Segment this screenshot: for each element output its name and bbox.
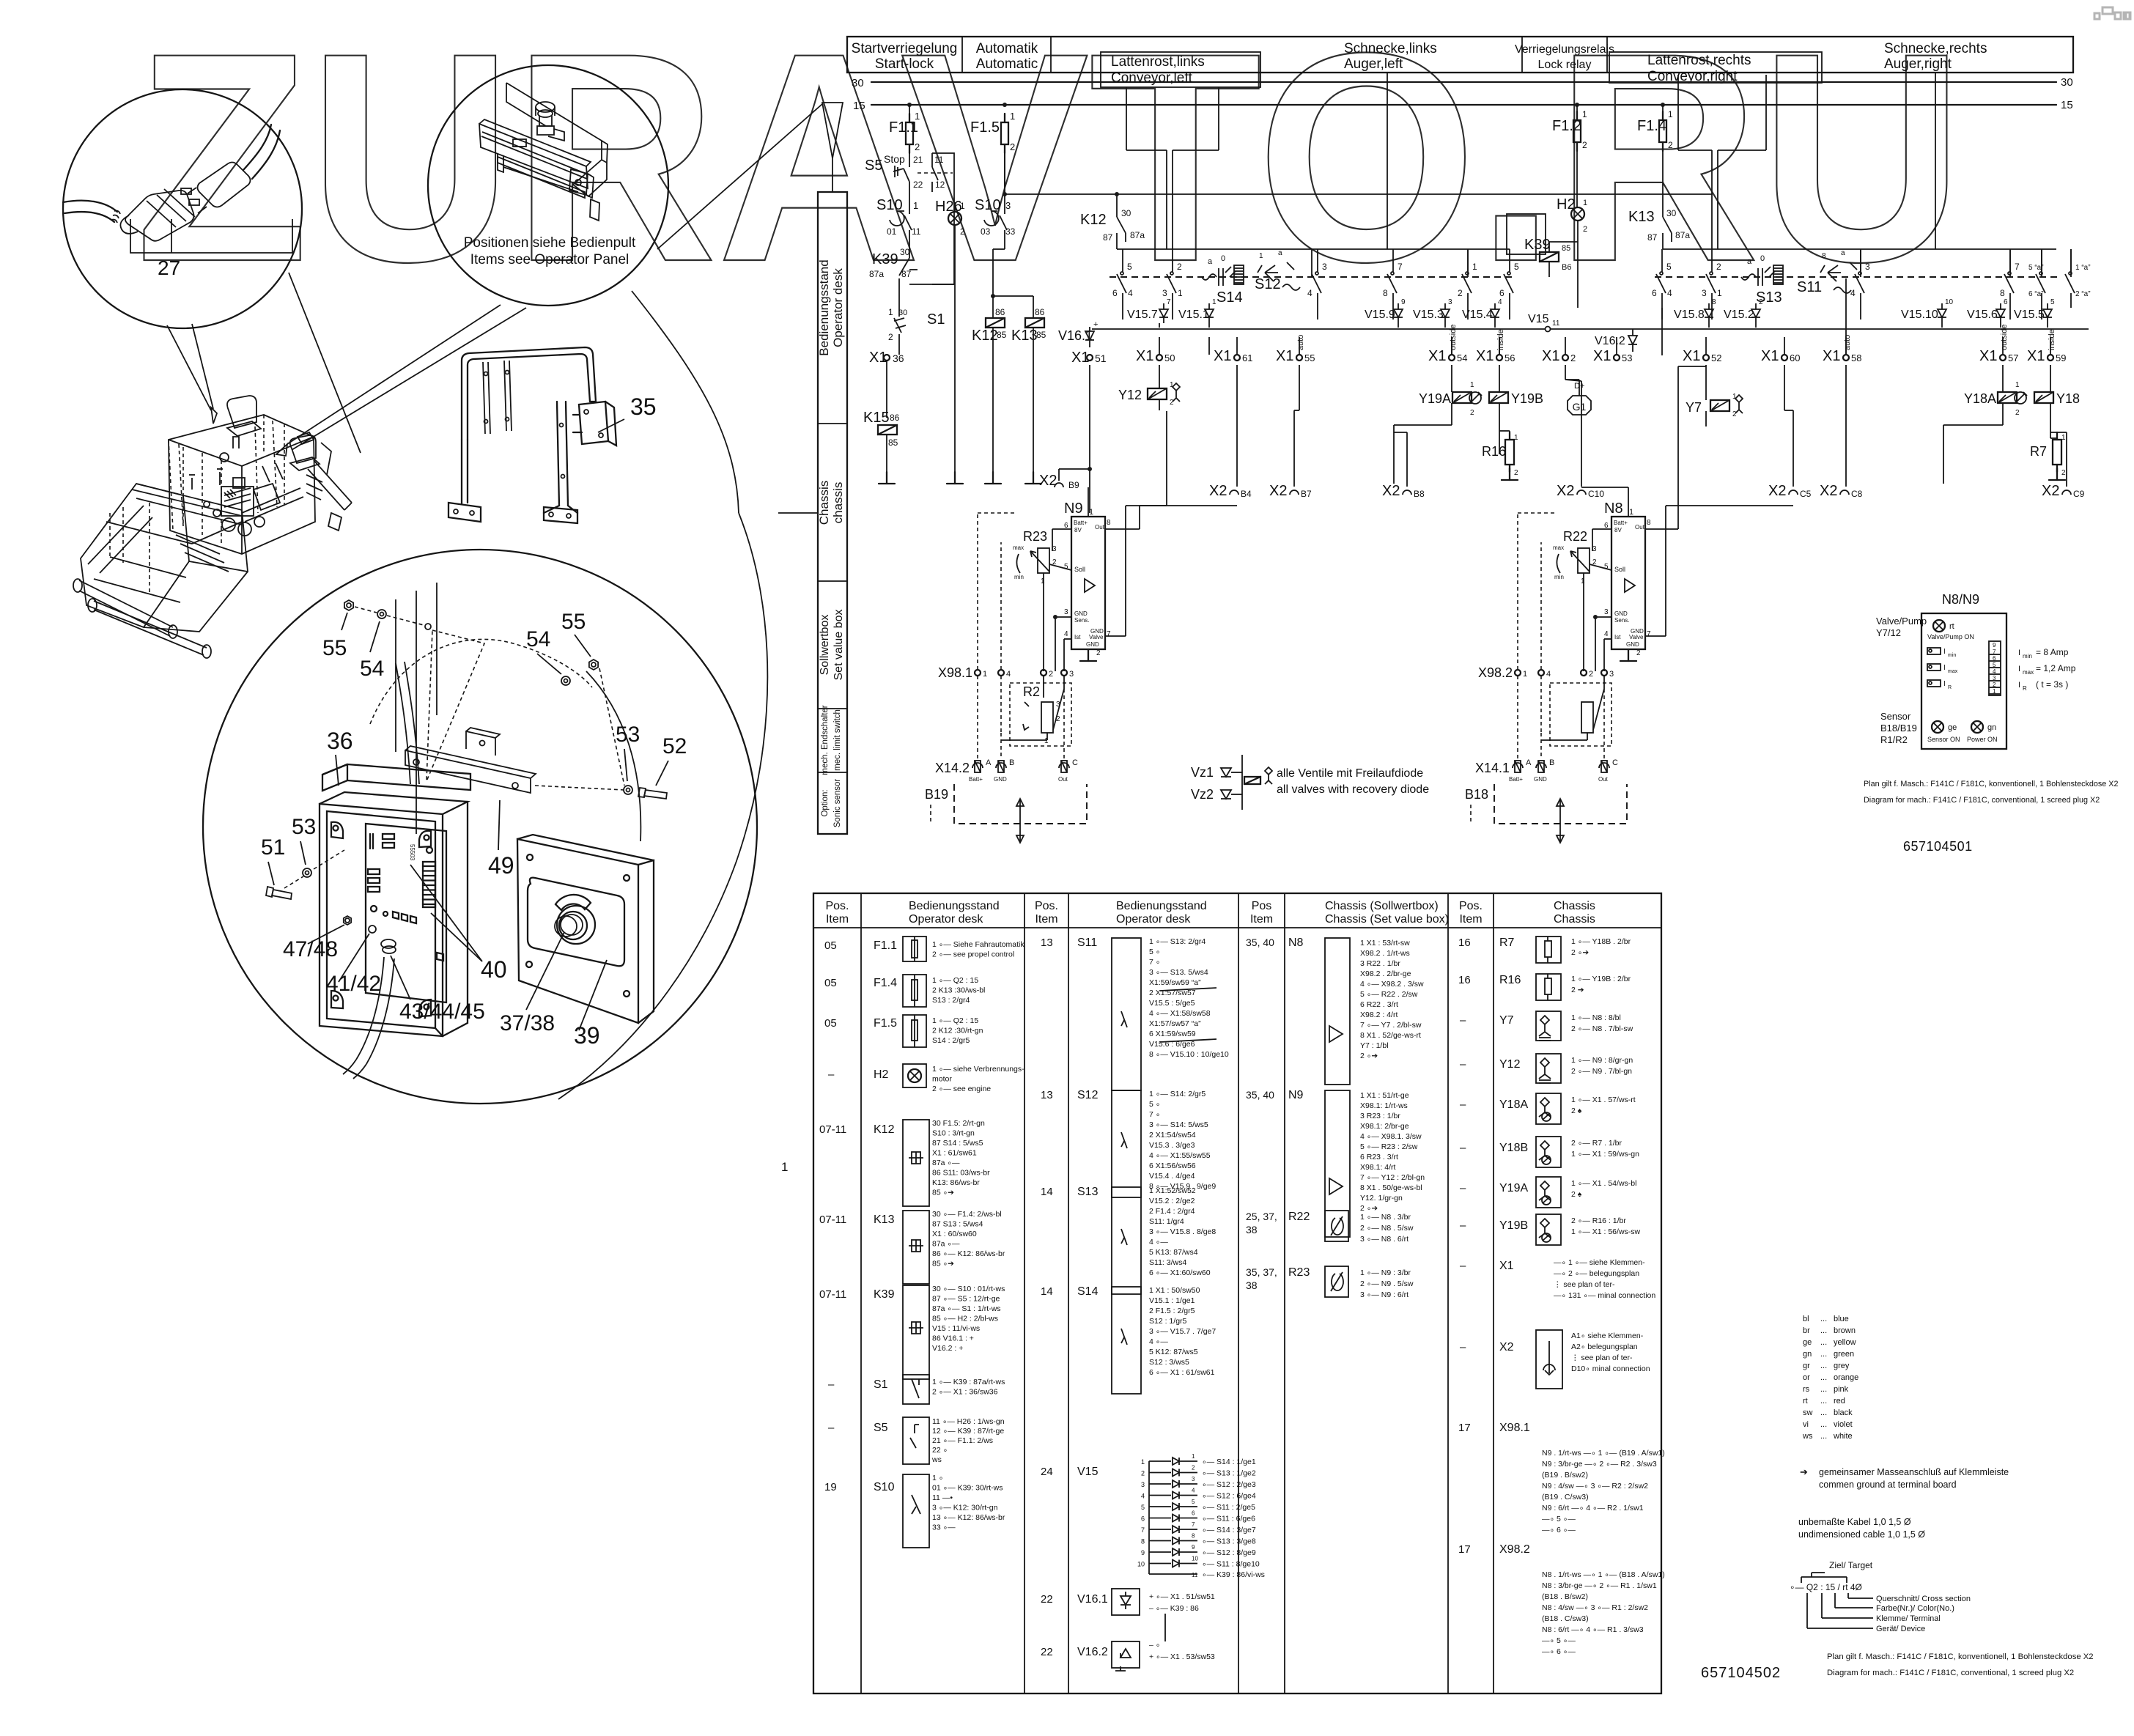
svg-text:+: +: [1093, 320, 1098, 329]
dashed line to 53 52: [599, 668, 624, 786]
svg-text:X1: X1: [1593, 348, 1611, 364]
svg-text:1: 1: [2061, 434, 2066, 442]
svg-text:35: 35: [630, 394, 657, 420]
svg-text:rt: rt: [1949, 622, 1954, 631]
svg-text:3: 3: [1609, 670, 1614, 679]
svg-text:motor: motor: [932, 1075, 952, 1084]
svg-text:05: 05: [824, 977, 837, 989]
svg-text:33 ∘—: 33 ∘—: [932, 1523, 956, 1532]
feeder legs from Lattenrost links box: [1126, 87, 1127, 150]
fuse F1.4: [1662, 105, 1664, 120]
svg-text:auto: auto: [1296, 335, 1305, 350]
svg-text:X2: X2: [1382, 483, 1400, 499]
svg-text:35, 40: 35, 40: [1246, 1089, 1274, 1101]
svg-text:3: 3: [1141, 1481, 1145, 1488]
svg-text:∘— K39 : 86/vi-ws: ∘— K39 : 86/vi-ws: [1202, 1570, 1265, 1579]
svg-text:22 ∘: 22 ∘: [932, 1446, 948, 1455]
machine isometric drawing: [73, 396, 352, 658]
svg-text:X1: X1: [1276, 348, 1293, 364]
svg-text:X98.2: X98.2: [1478, 665, 1513, 680]
svg-text:1: 1: [1212, 298, 1216, 306]
svg-text:Y18A: Y18A: [1964, 391, 1996, 406]
svg-text:56: 56: [1504, 352, 1515, 363]
svg-text:S10 : 3/rt-gn: S10 : 3/rt-gn: [932, 1129, 975, 1138]
svg-text:85: 85: [888, 437, 898, 448]
svg-text:Out: Out: [1095, 524, 1105, 531]
svg-text:1: 1: [781, 1160, 788, 1174]
svg-text:5: 5: [1141, 1504, 1145, 1511]
dashed control row links: [1110, 276, 1514, 278]
svg-text:1 ∘— Q2 : 15: 1 ∘— Q2 : 15: [932, 976, 978, 985]
svg-text:2: 2: [1141, 1470, 1145, 1477]
svg-text:X98.2 . 2/br-ge: X98.2 . 2/br-ge: [1360, 969, 1411, 978]
svg-text:6 X1:59/sw59: 6 X1:59/sw59: [1149, 1030, 1196, 1038]
svg-text:X98.1: X98.1: [1499, 1422, 1530, 1434]
wires diode row to X1 row: [1159, 337, 1160, 355]
svg-text:7: 7: [1993, 649, 1996, 655]
svg-text:24: 24: [1041, 1466, 1053, 1478]
svg-text:17: 17: [1458, 1543, 1471, 1556]
svg-text:2: 2: [1636, 649, 1641, 657]
svg-text:1: 1: [1041, 577, 1045, 586]
svg-text:B4: B4: [1241, 489, 1252, 499]
svg-text:87: 87: [1647, 232, 1658, 243]
wires from contact row down to diodes: [1122, 308, 1123, 320]
svg-text:gn: gn: [1803, 1350, 1812, 1359]
svg-text:3: 3: [1604, 608, 1609, 616]
svg-text:1 X1:52/sw52: 1 X1:52/sw52: [1149, 1186, 1196, 1195]
mount posts in circle: [395, 599, 396, 752]
svg-text:8: 8: [1141, 1538, 1145, 1545]
svg-text:8: 8: [1647, 519, 1651, 527]
svg-text:X1: X1: [1428, 348, 1446, 364]
svg-text:GND: GND: [1074, 610, 1088, 617]
svg-text:N9 : 6/rt —∘ 4 ∘— R2 .: N9 : 6/rt —∘ 4 ∘— R2 . 1/sw1: [1542, 1504, 1644, 1512]
svg-text:N8: N8: [1288, 937, 1304, 949]
svg-text:⋮ see plan of ter-: ⋮ see plan of ter-: [1554, 1280, 1615, 1289]
svg-text:V15.1: V15.1: [1178, 309, 1209, 321]
svg-text:6: 6: [1192, 1510, 1195, 1517]
svg-text:3 ∘— V15.8 . 8/ge8: 3 ∘— V15.8 . 8/ge8: [1149, 1227, 1216, 1236]
svg-text:3: 3: [1162, 288, 1167, 298]
svg-text:GND: GND: [1086, 641, 1099, 648]
svg-text:2: 2: [915, 141, 920, 152]
dashed sensor wires X98.1: [977, 676, 978, 759]
svg-text:–: –: [828, 1068, 835, 1081]
svg-text:N8 : 6/rt —∘ 4 ∘— R1 .: N8 : 6/rt —∘ 4 ∘— R1 . 3/sw3: [1542, 1625, 1644, 1634]
wire bus under K13: [1663, 248, 2056, 250]
svg-text:Operator desk: Operator desk: [831, 268, 845, 347]
svg-text:6: 6: [1499, 288, 1504, 298]
svg-text:4: 4: [1128, 288, 1133, 298]
svg-text:30: 30: [900, 247, 910, 257]
svg-text:54: 54: [526, 627, 550, 651]
svg-text:X98.1: 2/br-ge: X98.1: 2/br-ge: [1360, 1122, 1409, 1131]
svg-text:2: 2: [1668, 140, 1673, 150]
svg-text:Stop: Stop: [884, 153, 905, 165]
dashed control row rechts: [1655, 276, 2061, 278]
svg-text:unbemaßte Kabel 1,0 1,5 Ø: unbemaßte Kabel 1,0 1,5 Ø: [1798, 1517, 1911, 1527]
svg-text:X1: X1: [1542, 348, 1559, 364]
svg-text:3: 3: [1069, 670, 1074, 679]
svg-text:4: 4: [1993, 668, 1996, 675]
svg-text:5 ∘: 5 ∘: [1149, 1100, 1160, 1109]
dashed fastener line left: [355, 607, 377, 613]
svg-text:54: 54: [1457, 352, 1467, 363]
svg-text:Chassis (Sollwertbox): Chassis (Sollwertbox): [1325, 900, 1439, 912]
svg-text:N8 : 3/br-ge —∘ 2 ∘— R1 . 1: N8 : 3/br-ge —∘ 2 ∘— R1 . 1/sw1: [1542, 1581, 1657, 1590]
svg-text:V15.5 : 5/ge5: V15.5 : 5/ge5: [1149, 999, 1195, 1008]
svg-text:rs: rs: [1803, 1385, 1810, 1394]
svg-text:5: 5: [1666, 262, 1672, 272]
svg-text:...: ...: [1820, 1326, 1827, 1335]
svg-text:X1: X1: [2027, 348, 2045, 364]
svg-text:2 ∘➔: 2 ∘➔: [1571, 948, 1589, 957]
svg-text:black: black: [1834, 1408, 1853, 1417]
grounds automatik: [992, 472, 994, 484]
svg-text:ge: ge: [1948, 723, 1957, 732]
svg-text:87 ∘— S5 : 12/rt-ge: 87 ∘— S5 : 12/rt-ge: [932, 1295, 1000, 1304]
svg-text:I: I: [2018, 665, 2020, 673]
svg-text:30 ∘— F1.4: 2/ws-bl: 30 ∘— F1.4: 2/ws-bl: [932, 1210, 1002, 1219]
svg-text:Out: Out: [1058, 776, 1068, 783]
svg-text:B7: B7: [1301, 489, 1312, 499]
svg-text:vi: vi: [1803, 1420, 1809, 1429]
svg-text:GND: GND: [1626, 641, 1639, 648]
svg-text:2: 2: [1458, 288, 1463, 298]
svg-text:Out: Out: [1598, 776, 1609, 783]
svg-text:all valves with recovery diode: all valves with recovery diode: [1277, 783, 1429, 796]
svg-text:( t = 3s ): ( t = 3s ): [2036, 679, 2068, 690]
svg-text:X1: X1: [1979, 348, 1997, 364]
svg-text:30 ∘— S10 : 01/rt-ws: 30 ∘— S10 : 01/rt-ws: [932, 1285, 1005, 1293]
pcb panel 40: [366, 824, 446, 1002]
svg-text:2: 2: [1583, 225, 1587, 234]
svg-text:B8: B8: [1414, 489, 1425, 499]
svg-text:ge: ge: [1803, 1338, 1812, 1347]
svg-text:auto: auto: [1843, 335, 1852, 350]
svg-text:∘— S13 : 1/ge2: ∘— S13 : 1/ge2: [1202, 1469, 1256, 1478]
svg-text:2 ∘— R7 . 1/br: 2 ∘— R7 . 1/br: [1571, 1139, 1622, 1148]
plug connector body 27: [125, 191, 194, 241]
svg-text:Diagram for mach.: F141C / F1: Diagram for mach.: F141C / F181C, conven…: [1864, 796, 2100, 805]
svg-text:7 ∘— Y7 . 2/bl-sw: 7 ∘— Y7 . 2/bl-sw: [1360, 1021, 1422, 1030]
svg-text:V15.10: V15.10: [1901, 309, 1938, 321]
leader swoosh to sollwertbox: [632, 291, 739, 513]
svg-text:red: red: [1834, 1397, 1845, 1406]
grommet 43/44/45: [383, 946, 396, 953]
svg-text:87 S14 : 5/ws5: 87 S14 : 5/ws5: [932, 1139, 983, 1148]
svg-text:max: max: [1948, 669, 1958, 674]
svg-text:1 X1 : 50/sw50: 1 X1 : 50/sw50: [1149, 1286, 1200, 1295]
svg-text:X1:59/sw59 “a”: X1:59/sw59 “a”: [1149, 978, 1201, 987]
svg-text:40: 40: [481, 956, 507, 983]
svg-text:a: a: [1747, 257, 1752, 266]
svg-text:9: 9: [1401, 298, 1406, 306]
svg-text:Valve/Pump ON: Valve/Pump ON: [1927, 633, 1974, 640]
svg-text:19: 19: [824, 1481, 837, 1493]
svg-text:87a: 87a: [869, 269, 884, 279]
svg-text:min: min: [1014, 574, 1024, 580]
svg-text:4: 4: [1006, 670, 1011, 679]
svg-text:F1.4: F1.4: [874, 977, 897, 989]
svg-text:87 S13 : 5/ws4: 87 S13 : 5/ws4: [932, 1220, 983, 1229]
svg-text:07-11: 07-11: [819, 1288, 846, 1301]
svg-text:S12 : 1/gr5: S12 : 1/gr5: [1149, 1317, 1187, 1326]
svg-text:outside: outside: [2000, 325, 2009, 350]
svg-text:9: 9: [1993, 642, 1996, 649]
svg-text:6 “a”: 6 “a”: [2028, 290, 2044, 298]
svg-text:brown: brown: [1834, 1326, 1856, 1335]
svg-text:C8: C8: [1851, 489, 1863, 499]
svg-text:X2: X2: [1820, 483, 1837, 499]
svg-text:–: –: [1460, 1058, 1466, 1071]
svg-text:Start-lock: Start-lock: [875, 56, 934, 72]
svg-text:1 X1 : 53/rt-sw: 1 X1 : 53/rt-sw: [1360, 939, 1410, 948]
wire bus under K12: [1117, 248, 1510, 250]
svg-text:Diagram for mach.: F141C / F1: Diagram for mach.: F141C / F181C, conven…: [1827, 1669, 2074, 1677]
svg-text:14: 14: [1041, 1186, 1053, 1198]
svg-text:∘— S14 : 1/ge1: ∘— S14 : 1/ge1: [1202, 1458, 1256, 1466]
svg-text:22: 22: [913, 180, 923, 190]
svg-text:I: I: [1943, 664, 1946, 672]
svg-text:4 ∘— X98.2 . 3/sw: 4 ∘— X98.2 . 3/sw: [1360, 980, 1424, 989]
svg-text:V15.5: V15.5: [2014, 309, 2045, 321]
svg-text:Batt+: Batt+: [1509, 776, 1523, 783]
svg-text:2: 2: [1470, 409, 1474, 417]
svg-text:5 ∘— R23 : 2/sw: 5 ∘— R23 : 2/sw: [1360, 1142, 1418, 1151]
svg-text:2 F1.4 : 2/gr4: 2 F1.4 : 2/gr4: [1149, 1207, 1195, 1216]
swoosh arc of detail circle: [558, 513, 767, 1099]
svg-text:55: 55: [1304, 352, 1315, 363]
svg-text:85 ∘➔: 85 ∘➔: [932, 1260, 954, 1268]
svg-text:17: 17: [1458, 1422, 1471, 1434]
svg-text:...: ...: [1820, 1338, 1827, 1347]
wire auto 58: [1845, 278, 1847, 355]
svg-text:53: 53: [1622, 352, 1632, 363]
svg-text:V15.6: V15.6: [1967, 309, 1998, 321]
svg-text:S5: S5: [874, 1422, 888, 1434]
svg-text:S11: S11: [1797, 279, 1822, 295]
svg-text:Klemme/ Terminal: Klemme/ Terminal: [1876, 1614, 1941, 1623]
svg-text:3: 3: [1993, 675, 1996, 682]
header Lattenrost rechts: [1609, 52, 1822, 83]
svg-text:(B18 . B/sw2): (B18 . B/sw2): [1542, 1592, 1588, 1601]
svg-text:Operator desk: Operator desk: [909, 913, 983, 926]
svg-text:undimensioned cable 1,0 1,5: undimensioned cable 1,0 1,5 Ø: [1798, 1529, 1925, 1540]
svg-text:Querschnitt/ Cross section: Querschnitt/ Cross section: [1876, 1595, 1971, 1603]
svg-text:1 ∘— S14: 2/gr5: 1 ∘— S14: 2/gr5: [1149, 1090, 1206, 1098]
svg-text:7 ∘: 7 ∘: [1149, 1110, 1160, 1119]
svg-text:K12: K12: [972, 328, 998, 344]
svg-text:R: R: [1948, 685, 1952, 690]
svg-text:C9: C9: [2073, 489, 2085, 499]
svg-text:–: –: [828, 1378, 835, 1391]
svg-text:Item: Item: [1459, 913, 1482, 926]
svg-text:Batt+: Batt+: [969, 776, 983, 783]
svg-text:2: 2: [1582, 140, 1587, 150]
svg-text:2: 2: [1993, 682, 1996, 688]
fuse F1.5: [1001, 122, 1008, 144]
wire Ist: [1064, 638, 1071, 640]
svg-text:Y12. 1/gr-gn: Y12. 1/gr-gn: [1360, 1194, 1403, 1203]
node to conveyor line: [1004, 153, 1005, 194]
svg-text:R22: R22: [1563, 529, 1587, 544]
svg-text:7: 7: [1167, 298, 1171, 306]
svg-text:green: green: [1834, 1350, 1854, 1359]
svg-text:∘— S11 : 8/ge10: ∘— S11 : 8/ge10: [1202, 1560, 1260, 1569]
svg-text:—∘ 2 ∘— belegungsplan: —∘ 2 ∘— belegungsplan: [1554, 1269, 1639, 1278]
svg-text:0: 0: [1760, 254, 1765, 263]
svg-text:Valve: Valve: [1089, 634, 1104, 640]
svg-text:52: 52: [662, 734, 687, 758]
svg-text:X1: X1: [1476, 348, 1494, 364]
svg-text:85: 85: [997, 330, 1007, 340]
pot R1: [1581, 702, 1593, 733]
svg-text:...: ...: [1820, 1408, 1827, 1417]
detail circle 27 (cable plug): [63, 89, 302, 328]
svg-text:1: 1: [1668, 109, 1673, 119]
svg-text:Pos: Pos: [1252, 900, 1272, 912]
leader from circle 27 to machine: [167, 325, 211, 410]
svg-text:Ist: Ist: [1614, 634, 1621, 640]
svg-text:Pos.: Pos.: [1035, 900, 1058, 912]
svg-text:5: 5: [1993, 662, 1996, 668]
svg-text:B19: B19: [925, 787, 948, 802]
svg-text:15: 15: [2061, 99, 2073, 111]
svg-text:30: 30: [1121, 208, 1131, 218]
svg-text:K39: K39: [874, 1288, 895, 1301]
svg-text:+ ∘— X1 . 51/sw51: + ∘— X1 . 51/sw51: [1149, 1592, 1215, 1601]
svg-text:N8 : 4/sw —∘ 3 ∘— R1 :: N8 : 4/sw —∘ 3 ∘— R1 : 2/sw2: [1542, 1603, 1648, 1612]
svg-text:Plan gilt f. Masch.: F141C /: Plan gilt f. Masch.: F141C / F181C, konv…: [1827, 1652, 2094, 1661]
svg-text:grey: grey: [1834, 1362, 1850, 1370]
mount bar 49: [405, 750, 531, 793]
svg-text:3: 3: [1005, 200, 1011, 211]
svg-text:or: or: [1803, 1373, 1810, 1382]
svg-text:Set value box: Set value box: [832, 610, 845, 681]
top right corner icons: [2094, 7, 2130, 19]
svg-text:(B18 . C/sw3): (B18 . C/sw3): [1542, 1614, 1589, 1623]
svg-text:87a ∘—: 87a ∘—: [932, 1159, 960, 1167]
svg-text:X98.2 : 4/rt: X98.2 : 4/rt: [1360, 1011, 1398, 1019]
sensor arrow B18: [1559, 799, 1561, 843]
svg-text:S10: S10: [874, 1481, 895, 1493]
screw 51: [273, 893, 291, 896]
bolt 52: [645, 793, 667, 796]
svg-text:55: 55: [322, 636, 347, 660]
svg-text:S11: S11: [1077, 937, 1097, 949]
svg-text:V15.9: V15.9: [1365, 309, 1395, 321]
svg-text:D10∘ minal connection: D10∘ minal connection: [1571, 1364, 1650, 1373]
leader line right of circle 27: [289, 273, 361, 453]
svg-text:86: 86: [890, 413, 900, 423]
svg-text:1: 1: [1044, 737, 1049, 745]
relay coils K12 K13: [993, 295, 1033, 297]
svg-text:Auger,left: Auger,left: [1344, 56, 1403, 72]
svg-text:4: 4: [1667, 288, 1672, 298]
svg-text:F1.2: F1.2: [1552, 118, 1581, 134]
clamp main bar: [479, 124, 588, 188]
svg-text:...: ...: [1820, 1362, 1827, 1370]
header Lattenrost links: [1101, 52, 1260, 87]
svg-text:11 ∘— H26 : 1/ws-gn: 11 ∘— H26 : 1/ws-gn: [932, 1417, 1005, 1426]
svg-text:39: 39: [574, 1022, 600, 1049]
svg-text:5: 5: [1192, 1499, 1195, 1505]
svg-text:11 —•: 11 —•: [932, 1493, 953, 1502]
svg-text:...: ...: [1820, 1373, 1827, 1382]
svg-text:12: 12: [935, 180, 945, 190]
coil S13: [1741, 274, 1756, 280]
grounds left column: [886, 472, 887, 484]
svg-text:2 F1.5 : 2/gr5: 2 F1.5 : 2/gr5: [1149, 1307, 1195, 1315]
svg-text:gemeinsamer Masseanschluß auf: gemeinsamer Masseanschluß auf Klemmleist…: [1819, 1467, 2009, 1477]
nut 55 right: [589, 660, 598, 670]
svg-text:1: 1: [888, 307, 893, 317]
svg-text:2 ∘— N9 . 7/bl-gn: 2 ∘— N9 . 7/bl-gn: [1571, 1067, 1632, 1076]
svg-text:1 ∘— Y18B . 2/br: 1 ∘— Y18B . 2/br: [1571, 937, 1631, 946]
svg-text:mec. limit switch: mec. limit switch: [833, 709, 842, 771]
svg-text:alle Ventile mit Freilaufdiode: alle Ventile mit Freilaufdiode: [1277, 767, 1423, 780]
svg-text:R16: R16: [1482, 444, 1506, 459]
svg-text:3: 3: [1064, 608, 1068, 616]
svg-text:6 R22 . 3/rt: 6 R22 . 3/rt: [1360, 1000, 1398, 1009]
mounting bracket part 35: [448, 347, 616, 523]
fuse F1.1: [909, 105, 910, 122]
svg-text:Out: Out: [1635, 524, 1645, 531]
svg-text:1 ∘— N9 : 8/gr-gn: 1 ∘— N9 : 8/gr-gn: [1571, 1056, 1633, 1065]
svg-text:657104501: 657104501: [1903, 839, 1973, 854]
svg-text:B: B: [1549, 758, 1554, 767]
svg-text:orange: orange: [1834, 1373, 1858, 1382]
wire into box: [396, 662, 419, 784]
svg-text:Plan gilt f. Masch.: F141C /: Plan gilt f. Masch.: F141C / F181C, konv…: [1864, 780, 2119, 788]
svg-text:V15.3: V15.3: [1413, 309, 1444, 321]
washer 54 right: [561, 676, 570, 685]
svg-text:5: 5: [2050, 298, 2055, 306]
svg-text:N8: N8: [1604, 501, 1623, 517]
svg-text:–: –: [1460, 1260, 1466, 1272]
svg-text:Pos.: Pos.: [825, 900, 849, 912]
svg-text:85: 85: [1562, 244, 1570, 253]
svg-text:14: 14: [1041, 1285, 1053, 1298]
svg-text:53: 53: [292, 815, 316, 839]
svg-text:–: –: [1460, 1341, 1466, 1353]
svg-text:6 ∘— X1 : 61/sw61: 6 ∘— X1 : 61/sw61: [1149, 1368, 1215, 1377]
svg-text:85 ∘— H2 : 2/bl-ws: 85 ∘— H2 : 2/bl-ws: [932, 1315, 998, 1323]
svg-text:Startverriegelung: Startverriegelung: [852, 41, 958, 56]
svg-text:4 ∘—: 4 ∘—: [1149, 1337, 1168, 1346]
svg-text:10: 10: [1945, 298, 1954, 306]
svg-text:7: 7: [1398, 262, 1403, 272]
svg-text:N9 : 3/br-ge —∘ 2 ∘— R2 . 3: N9 : 3/br-ge —∘ 2 ∘— R2 . 3/sw3: [1542, 1460, 1657, 1469]
svg-text:11: 11: [934, 155, 944, 165]
svg-text:657104502: 657104502: [1701, 1665, 1781, 1681]
svg-text:F1.5: F1.5: [874, 1017, 897, 1030]
svg-text:2: 2: [1514, 469, 1518, 477]
svg-text:38: 38: [1246, 1279, 1258, 1291]
svg-text:3: 3: [1322, 262, 1327, 272]
svg-text:–: –: [1460, 1142, 1466, 1154]
svg-text:1: 1: [960, 201, 965, 211]
svg-text:36: 36: [893, 352, 904, 364]
svg-text:86 ∘— K12: 86/ws-br: 86 ∘— K12: 86/ws-br: [932, 1249, 1005, 1258]
svg-text:F1.4: F1.4: [1637, 118, 1666, 134]
svg-text:51: 51: [1095, 352, 1107, 364]
svg-text:1 ∘— Y19B : 2/br: 1 ∘— Y19B : 2/br: [1571, 975, 1631, 983]
svg-text:C10: C10: [1588, 489, 1604, 499]
svg-text:G1: G1: [1573, 401, 1587, 413]
